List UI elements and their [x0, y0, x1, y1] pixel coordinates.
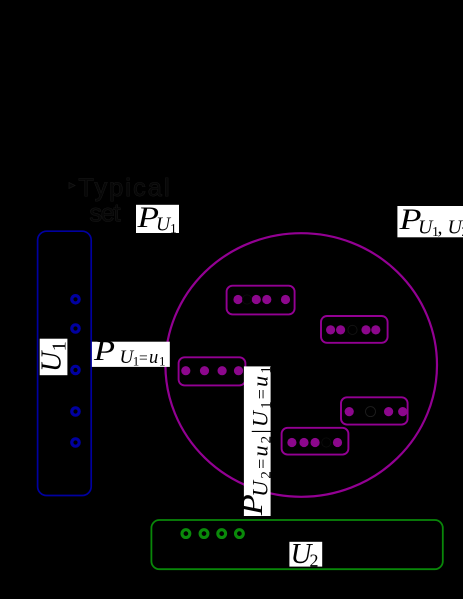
label PU1,U2 (clipped at right edge) [397, 203, 463, 240]
U2 sample point 1 [182, 530, 190, 538]
B2 dots [326, 325, 380, 334]
codeword box B3 [179, 357, 246, 385]
bullet [69, 183, 75, 189]
U2 sample point 2 [200, 530, 208, 538]
svg-text:1: 1 [170, 221, 177, 236]
set U1 box (blue rounded rect) [38, 231, 92, 495]
codeword box B1 [227, 286, 295, 315]
label PU1 [136, 201, 179, 236]
B3 dots [181, 366, 243, 375]
U1 sample point 5 [72, 439, 79, 446]
U1 sample point 4 [72, 408, 79, 415]
U2 sample point 4 [236, 530, 244, 538]
U2 sample point 3 [218, 530, 226, 538]
B1 hidden dot [242, 295, 251, 304]
U1 sample point 2 [72, 325, 79, 332]
B1 dots [233, 295, 290, 304]
U1 sample point 1 [72, 296, 79, 303]
svg-text:2: 2 [310, 551, 319, 571]
label U2 [289, 538, 322, 571]
svg-text:1: 1 [159, 354, 166, 369]
set U2 box (green rounded rect) [151, 520, 442, 569]
B4 dots [345, 407, 408, 416]
B4 hidden dot [366, 407, 376, 417]
B2 hidden dot [348, 325, 357, 334]
label PU2=u2|U1=u1 (rotated) [236, 364, 275, 516]
codeword box B4 [341, 397, 408, 424]
label PU1=u1 [92, 336, 170, 369]
svg-text:=: = [139, 350, 148, 367]
svg-text:P: P [93, 336, 115, 367]
svg-text:U: U [36, 350, 67, 372]
label U1 (rotated) [36, 339, 70, 376]
joint distribution ellipse PU1,U2 [165, 233, 437, 497]
svg-text:u: u [149, 348, 158, 368]
B5 hidden dot [322, 438, 331, 447]
svg-text:set: set [90, 200, 121, 228]
codeword box B2 [321, 316, 388, 343]
U1 sample point 3 [72, 366, 79, 373]
svg-text:1: 1 [49, 341, 71, 351]
svg-text:,: , [438, 217, 443, 239]
B5 dots [287, 438, 342, 447]
codeword box B5 [282, 428, 349, 455]
